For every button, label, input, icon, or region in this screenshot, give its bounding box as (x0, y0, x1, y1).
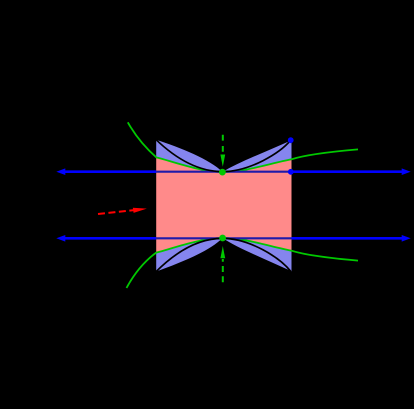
green dashed arrow bottom (pointing up at lower fixed point) (220, 246, 225, 282)
wing bottom-right (blue lobe) (223, 238, 292, 271)
navy line segment across rectangle, top (156, 171, 291, 173)
blue arrow line top-left (56, 168, 156, 175)
green trajectory top (128, 122, 358, 172)
black hyperbola top (155, 139, 291, 172)
green fixed point bottom (219, 235, 226, 242)
blue arrow line top-right (292, 168, 411, 175)
blue arrow line bottom-right (292, 235, 411, 242)
green trajectory bottom (127, 238, 359, 288)
blue arrow line bottom-left (56, 235, 156, 242)
green dashed arrow top (pointing down at upper fixed point) (220, 135, 225, 167)
navy line segment across rectangle, bottom (156, 237, 291, 239)
wing top-left (blue lobe) (156, 140, 222, 172)
red dashed arrow (pointing at left edge of pink region) (98, 208, 147, 214)
blue point at top-right wing corner (288, 137, 294, 143)
pink reaction region (central salmon area bounded by green curves) (156, 157, 291, 252)
wing top-right (blue lobe) (223, 140, 292, 172)
blue point on top line at right edge (288, 169, 294, 175)
green fixed point top (219, 169, 226, 176)
wing bottom-left (blue lobe) (156, 238, 222, 272)
black hyperbola bottom (155, 238, 291, 272)
